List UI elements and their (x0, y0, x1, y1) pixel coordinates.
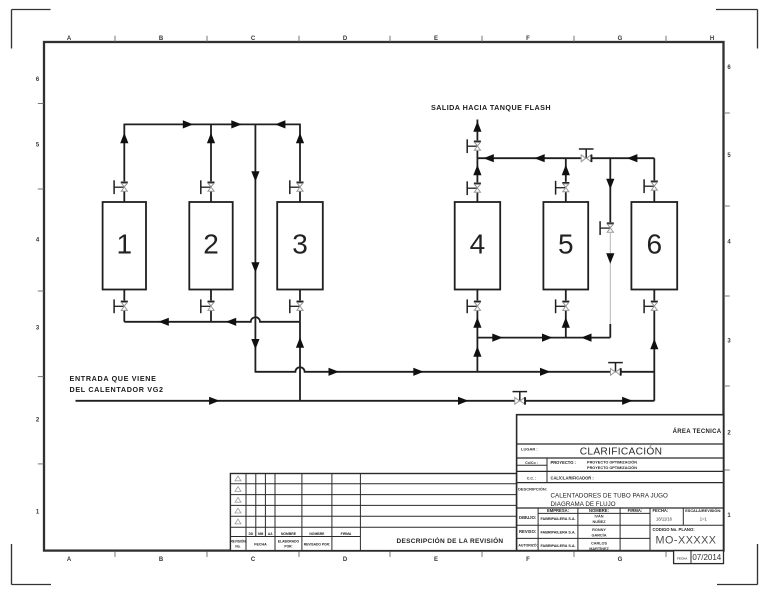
svg-text:FIRMA:: FIRMA: (628, 508, 643, 513)
revision triangle 3 (235, 497, 241, 502)
svg-text:NUÑEZ: NUÑEZ (592, 519, 606, 524)
svg-text:F: F (526, 557, 530, 563)
svg-text:PROYECTO :: PROYECTO : (551, 460, 576, 465)
svg-text:A: A (67, 557, 72, 563)
svg-text:REVISO:: REVISO: (519, 529, 536, 534)
flow arrow down central line upper (251, 171, 259, 181)
svg-text:EMPRESA:: EMPRESA: (547, 508, 569, 513)
wire: right top manifold (477, 157, 581, 159)
heater 5 (543, 202, 588, 290)
svg-text:D: D (343, 557, 348, 563)
svg-text:CLARIFICACIÓN: CLARIFICACIÓN (580, 445, 663, 458)
flow arrow right on top manifold seg 1-2 (183, 120, 193, 128)
svg-text:A: A (67, 36, 72, 42)
flow arrow left bottom manifold seg 3-2 (226, 318, 236, 326)
valve transfer line (608, 363, 623, 376)
svg-text:DESCRIPCIÓN:: DESCRIPCIÓN: (518, 487, 547, 492)
revision table (230, 474, 516, 551)
svg-text:CODIGO No. PLANO:: CODIGO No. PLANO: (653, 527, 695, 532)
svg-text:G: G (618, 557, 623, 563)
flow arrow up salida outlet (473, 121, 481, 131)
heater 2 (189, 202, 232, 290)
svg-text:6: 6 (647, 228, 663, 259)
svg-text:NOMBRE: NOMBRE (281, 532, 297, 536)
svg-text:1: 1 (117, 228, 133, 259)
svg-text:C: C (251, 36, 256, 42)
flow arrow right transfer line 1 (329, 368, 339, 376)
flow arrow up riser 3 (296, 133, 304, 143)
flow arrow up heater 5 outlet (562, 165, 570, 175)
svg-text:ÁREA TECNICA: ÁREA TECNICA (673, 428, 722, 435)
svg-text:MM: MM (258, 532, 264, 536)
wire: heater 5 outlet riser (565, 158, 567, 182)
valve heater 3 inlet (290, 299, 304, 313)
svg-text:FIRMA: FIRMA (341, 532, 352, 536)
valve heater 2 outlet (201, 180, 215, 194)
flow arrow right entrada 2 (458, 397, 468, 405)
revision triangle 1 (235, 476, 241, 481)
flow arrow left bottom dist (581, 334, 591, 342)
valve right manifold (579, 149, 594, 162)
svg-text:IVÁN: IVÁN (594, 513, 603, 518)
svg-text:CARLOS: CARLOS (591, 541, 607, 545)
flow arrow left bottom manifold seg 2-1 (158, 318, 168, 326)
svg-text:DIBUJO:: DIBUJO: (519, 515, 536, 520)
wire: heater 2 inlet drop (210, 290, 212, 301)
flow arrow left right-manifold 2 (534, 154, 544, 162)
wire: entrada feed line (76, 400, 515, 402)
svg-text:C: C (251, 557, 256, 563)
svg-text:FECHA: FECHA (254, 543, 267, 547)
wire: heater 1 outlet riser (123, 124, 125, 182)
svg-text:SALIDA HACIA TANQUE FLASH: SALIDA HACIA TANQUE FLASH (431, 103, 551, 112)
flow arrow down central line lower (251, 339, 259, 349)
svg-text:1=1: 1=1 (700, 517, 708, 522)
flow arrow right entrada 1 (209, 397, 219, 405)
svg-text:B: B (159, 557, 164, 563)
svg-text:FABRIPAILERA S.A.: FABRIPAILERA S.A. (540, 517, 575, 521)
flow arrow up inlet feed riser (296, 337, 304, 347)
svg-text:POR:: POR: (284, 545, 292, 549)
svg-text:PROYECTO OPTIMIZACIÓN: PROYECTO OPTIMIZACIÓN (587, 459, 637, 464)
wire: heater 3 outlet riser (299, 124, 301, 182)
svg-text:DIAGRAMA DE FLUJO: DIAGRAMA DE FLUJO (551, 501, 616, 508)
flow arrow up riser 1 (120, 133, 128, 143)
valve heater 5 inlet (556, 299, 570, 313)
wire: left bottom manifold with hop over central line (124, 317, 300, 322)
label: entrada note (70, 374, 164, 394)
svg-text:16/11/16: 16/11/16 (656, 517, 673, 522)
wire: heater 5 inlet drop (565, 290, 567, 301)
svg-text:ELABORADO: ELABORADO (278, 540, 300, 544)
valve heater 3 outlet (290, 180, 304, 194)
svg-text:NOMBRE:: NOMBRE: (589, 508, 609, 513)
heater 6 (631, 202, 677, 290)
svg-text:DESCRIPCIÓN DE LA REVISIÓN: DESCRIPCIÓN DE LA REVISIÓN (397, 536, 504, 545)
svg-text:NOMBRE: NOMBRE (309, 532, 325, 536)
svg-text:FABRIPAILERA S.A.: FABRIPAILERA S.A. (540, 531, 575, 535)
valve heater 5 outlet (556, 181, 570, 195)
flow arrow right bottom dist 2 (542, 334, 552, 342)
svg-text:E: E (434, 36, 438, 42)
wire: left top manifold (124, 123, 300, 125)
svg-text:CAL/CLARIFICADOR :: CAL/CLARIFICADOR : (551, 475, 594, 480)
svg-text:CALENTADORES DE TUBO PARA JUGO: CALENTADORES DE TUBO PARA JUGO (551, 492, 669, 499)
heater 4 (455, 202, 501, 290)
heater 1 (103, 202, 146, 290)
wire: heater 1 inlet drop (123, 290, 125, 301)
wire: heater 6 inlet drop (653, 290, 655, 301)
svg-text:G: G (618, 36, 623, 42)
revision triangle 4 (235, 508, 241, 513)
wire: heater 6 outlet riser (653, 158, 655, 180)
svg-text:AUTORIZÓ:: AUTORIZÓ: (518, 542, 537, 547)
flow arrow left right-manifold 3 (627, 154, 637, 162)
flow arrow up heater 4 feed (473, 346, 481, 356)
svg-text:GARCÍA: GARCÍA (592, 532, 607, 537)
svg-text:AA: AA (268, 532, 273, 536)
flow arrow left right-manifold 1 (483, 154, 493, 162)
svg-text:C.C. :: C.C. : (527, 476, 536, 480)
svg-text:Co/Co :: Co/Co : (525, 461, 538, 465)
wire: salida riser above manifold (476, 120, 478, 141)
valve heater 6 outlet (644, 179, 658, 193)
svg-text:07/2014: 07/2014 (692, 553, 721, 562)
flow arrow left on top manifold seg 3-center (275, 120, 285, 128)
svg-text:D: D (343, 36, 348, 42)
wire: heater 3 inlet drop (299, 290, 301, 301)
svg-text:FECHA:: FECHA: (653, 508, 669, 513)
valve heater 4 inlet (467, 299, 481, 313)
revision triangle 2 (235, 487, 241, 492)
flow arrow down recirculation lower (606, 253, 614, 263)
svg-text:ENTRADA QUE VIENE: ENTRADA QUE VIENE (70, 374, 157, 383)
wire: heater 4 inlet drop (476, 290, 478, 301)
svg-text:REVISADO POR:: REVISADO POR: (304, 543, 330, 547)
svg-text:PROYECTO OPTIMIZACIÓN: PROYECTO OPTIMIZACIÓN (587, 465, 637, 470)
flow arrow down recirculation upper (606, 179, 614, 189)
wire: heater 4 outlet riser (476, 158, 478, 182)
valve heater 1 inlet (114, 299, 128, 313)
svg-text:FECHA: FECHA (677, 556, 688, 560)
svg-text:5: 5 (558, 228, 574, 259)
flow arrow up heater 4 outlet (473, 165, 481, 175)
wire: transfer line to right group with hop (255, 367, 655, 372)
flow arrow up heater 5 inlet (562, 317, 570, 327)
svg-text:MO-XXXXX: MO-XXXXX (656, 535, 717, 547)
valve heater 4 outlet (467, 181, 481, 195)
svg-text:4: 4 (470, 228, 486, 259)
valve recirculation branch (600, 221, 614, 235)
flow arrow up riser 2 (207, 133, 215, 143)
heater 3 (277, 202, 323, 290)
flow arrow right on top manifold seg 2-center (231, 120, 241, 128)
wire: inlet feed riser to heater 3 junction (299, 322, 301, 401)
svg-text:REVISIÓN: REVISIÓN (230, 539, 246, 544)
title block (517, 415, 724, 551)
revision triangle 5 (235, 519, 241, 524)
svg-text:RONNY: RONNY (592, 528, 606, 532)
svg-text:B: B (159, 36, 164, 42)
svg-text:F: F (526, 36, 530, 42)
valve heater 1 outlet (114, 180, 128, 194)
wire: recirculation branch lower (faint) (609, 233, 611, 325)
valve heater 6 inlet (644, 299, 658, 313)
flow arrow up heater 4 inlet (473, 317, 481, 327)
svg-text:MARTÍNEZ: MARTÍNEZ (589, 546, 609, 551)
date box (674, 551, 724, 564)
svg-text:FABRIPAILERA S.A.: FABRIPAILERA S.A. (540, 544, 575, 548)
valve entrada feed (513, 392, 528, 405)
flow arrow right bottom dist 1 (492, 334, 502, 342)
wire: recirculation branch drop (609, 158, 611, 222)
flow arrow down central line middle (251, 262, 259, 272)
svg-text:DEL CALENTADOR VG2: DEL CALENTADOR VG2 (70, 385, 164, 394)
svg-text:2: 2 (203, 228, 219, 259)
svg-text:ESCALA/REVISIÓN:: ESCALA/REVISIÓN: (685, 508, 721, 513)
svg-text:3: 3 (292, 228, 308, 259)
wire: recirculation elbow to heaters 4-5 bottom line (609, 324, 611, 338)
flow arrow right transfer line 3 (540, 368, 550, 376)
svg-text:H: H (710, 36, 714, 42)
svg-text:No.: No. (235, 545, 240, 549)
wire: central transfer drop line (254, 124, 256, 371)
flow arrow up heater 6 inlet (650, 339, 658, 349)
svg-text:E: E (434, 557, 438, 563)
flow arrow right entrada 3 (622, 397, 632, 405)
svg-text:DD: DD (249, 532, 254, 536)
svg-text:LUGAR :: LUGAR : (521, 447, 538, 452)
valve salida (467, 139, 481, 153)
flow arrow right transfer line 2 (413, 368, 423, 376)
wire: heater 2 outlet riser (210, 124, 212, 182)
wire: heaters 4-5 bottom distribution line (477, 337, 610, 339)
valve heater 2 inlet (201, 299, 215, 313)
